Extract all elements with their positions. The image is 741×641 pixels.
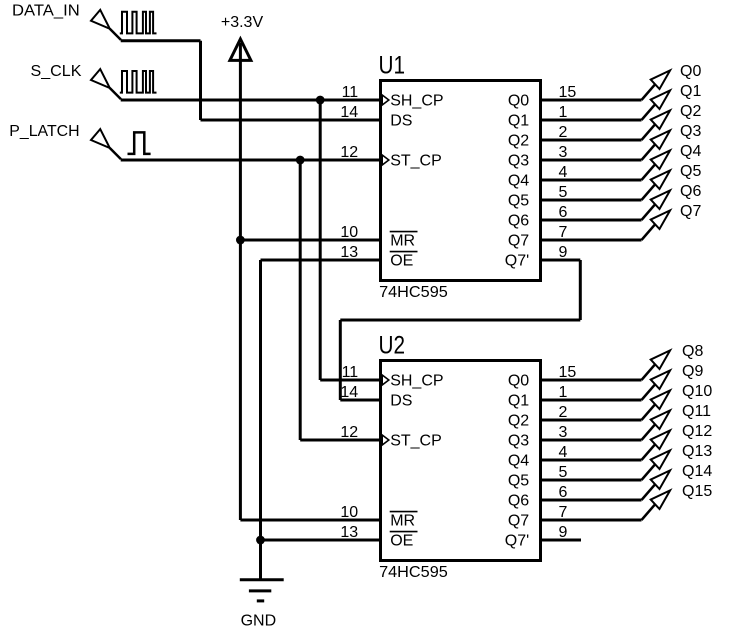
svg-text:14: 14 — [340, 104, 358, 121]
svg-text:U2: U2 — [379, 332, 406, 360]
output port Q5 — [651, 170, 670, 189]
wire output Q3 — [540, 159, 642, 162]
wire output Q2 — [540, 139, 642, 142]
svg-text:OE: OE — [390, 533, 413, 550]
svg-text:Q7': Q7' — [505, 253, 529, 270]
wire DATA_IN horizontal — [121, 39, 201, 42]
svg-text:Q4: Q4 — [680, 143, 701, 160]
clock pin arrow SH_CP of U1 — [382, 95, 389, 105]
wire cascade vertical right — [579, 260, 582, 320]
wire U1 Q7' pin 9 — [540, 259, 580, 262]
svg-text:Q7: Q7 — [680, 203, 701, 220]
clock pin arrow ST_CP of U1 — [382, 155, 389, 165]
wire +3.3V vertical — [239, 43, 242, 520]
svg-text:Q10: Q10 — [682, 383, 712, 400]
output port Q12 — [651, 430, 670, 449]
svg-text:Q3: Q3 — [680, 123, 701, 140]
svg-text:14: 14 — [340, 384, 358, 401]
svg-text:12: 12 — [340, 144, 358, 161]
wire S_CLK vertical to U2 — [319, 100, 322, 380]
wire output Q5 — [540, 199, 642, 202]
wire DATA_IN to U1 DS pin 14 — [201, 119, 383, 122]
svg-text:Q1: Q1 — [680, 83, 701, 100]
output port Q14 — [651, 470, 670, 489]
wire S_CLK to U1 SH_CP pin 11 — [121, 99, 382, 102]
svg-text:GND: GND — [241, 613, 277, 630]
svg-text:1: 1 — [559, 104, 568, 121]
wire cascade to U2 DS pin 14 — [340, 399, 382, 402]
waveform glyph DATA_IN — [120, 12, 157, 34]
svg-text:9: 9 — [559, 244, 568, 261]
svg-text:Q7: Q7 — [508, 513, 529, 530]
svg-text:Q1: Q1 — [508, 113, 529, 130]
wire output Q7 — [540, 239, 642, 242]
svg-text:11: 11 — [342, 84, 359, 101]
output port Q3 — [651, 130, 670, 149]
svg-text:MR: MR — [390, 513, 415, 530]
svg-text:Q12: Q12 — [682, 423, 712, 440]
svg-text:10: 10 — [340, 224, 358, 241]
wire output Q6 — [540, 219, 642, 222]
svg-text:Q6: Q6 — [508, 213, 529, 230]
wire +3.3V to U1 MR pin 10 — [240, 239, 382, 242]
svg-text:Q5: Q5 — [508, 473, 529, 490]
svg-text:ST_CP: ST_CP — [390, 433, 442, 450]
svg-text:Q11: Q11 — [682, 403, 711, 420]
wire +3.3V to U2 MR pin 10 — [240, 519, 382, 522]
svg-text:Q15: Q15 — [682, 483, 712, 500]
wire DATA_IN vertical — [199, 41, 202, 120]
svg-text:3: 3 — [559, 144, 568, 161]
svg-text:Q3: Q3 — [508, 153, 529, 170]
svg-text:13: 13 — [340, 524, 358, 541]
wire output Q10 — [540, 419, 642, 422]
wire output Q9 — [540, 399, 642, 402]
svg-text:15: 15 — [559, 364, 577, 381]
overline MR of U1 — [390, 231, 418, 233]
overline OE of U2 — [390, 531, 418, 533]
output port Q6 — [651, 190, 670, 209]
wire output Q12 — [540, 459, 642, 462]
output port Q15 — [651, 490, 670, 509]
svg-text:Q6: Q6 — [680, 183, 701, 200]
wire output Q15 — [540, 519, 642, 522]
svg-text:3: 3 — [559, 424, 568, 441]
output port Q10 — [651, 390, 670, 409]
power symbol +3.3V arrow — [230, 39, 251, 60]
ground symbol — [240, 578, 284, 581]
svg-text:15: 15 — [559, 84, 577, 101]
wire U2 Q7' pin 9 stub — [540, 539, 581, 542]
svg-text:Q4: Q4 — [508, 453, 529, 470]
wire OE vertical to GND — [259, 260, 262, 580]
clock pin arrow ST_CP of U2 — [382, 435, 389, 445]
input port P_LATCH — [91, 129, 110, 148]
output port Q1 — [651, 90, 670, 109]
junction OE GND — [256, 536, 265, 545]
svg-text:7: 7 — [559, 504, 568, 521]
svg-text:Q9: Q9 — [682, 363, 703, 380]
output port Q11 — [651, 410, 670, 429]
svg-text:P_LATCH: P_LATCH — [9, 123, 79, 140]
IC U1 74HC595 shift register — [381, 81, 541, 281]
svg-text:DATA_IN: DATA_IN — [12, 3, 80, 20]
wire output Q4 — [540, 179, 642, 182]
input port S_CLK — [91, 69, 110, 88]
junction +3.3V MR — [236, 236, 245, 245]
svg-text:Q3: Q3 — [508, 433, 529, 450]
svg-text:13: 13 — [340, 244, 358, 261]
wire cascade horizontal — [340, 319, 580, 322]
svg-text:SH_CP: SH_CP — [390, 93, 443, 110]
wire cascade vertical left — [339, 320, 342, 400]
wire output Q13 — [540, 479, 642, 482]
overline MR of U2 — [390, 511, 418, 513]
svg-text:Q0: Q0 — [680, 63, 701, 80]
svg-text:DS: DS — [390, 393, 412, 410]
junction S_CLK — [316, 96, 325, 105]
wire P_LATCH vertical to U2 — [299, 160, 302, 440]
svg-text:Q14: Q14 — [682, 463, 712, 480]
svg-text:7: 7 — [559, 224, 568, 241]
wire S_CLK to U2 SH_CP pin 11 — [320, 379, 382, 382]
svg-text:+3.3V: +3.3V — [221, 14, 264, 31]
svg-text:MR: MR — [390, 233, 415, 250]
svg-text:Q0: Q0 — [508, 93, 529, 110]
output port Q8 — [651, 350, 670, 369]
svg-text:Q0: Q0 — [508, 373, 529, 390]
wire output Q1 — [540, 119, 642, 122]
svg-text:6: 6 — [559, 204, 568, 221]
output port Q9 — [651, 370, 670, 389]
wire GND to U1 OE pin 13 — [261, 259, 383, 262]
svg-text:11: 11 — [342, 364, 359, 381]
svg-text:SH_CP: SH_CP — [390, 373, 443, 390]
output port Q7 — [651, 210, 670, 229]
svg-text:Q7': Q7' — [505, 533, 529, 550]
wire output Q8 — [540, 379, 642, 382]
svg-text:4: 4 — [559, 444, 568, 461]
svg-text:5: 5 — [559, 184, 568, 201]
IC U2 74HC595 shift register — [381, 361, 541, 561]
svg-text:74HC595: 74HC595 — [379, 284, 448, 301]
svg-text:Q7: Q7 — [508, 233, 529, 250]
svg-text:Q1: Q1 — [508, 393, 529, 410]
pulse glyph P_LATCH — [128, 132, 151, 154]
waveform glyph S_CLK — [120, 71, 157, 93]
wire P_LATCH to U2 ST_CP pin 12 — [300, 439, 382, 442]
svg-text:Q5: Q5 — [508, 193, 529, 210]
svg-text:4: 4 — [559, 164, 568, 181]
wire output Q0 — [540, 99, 642, 102]
svg-text:ST_CP: ST_CP — [390, 153, 442, 170]
svg-text:2: 2 — [559, 404, 568, 421]
overline OE of U1 — [390, 251, 418, 253]
svg-text:Q13: Q13 — [682, 443, 712, 460]
svg-text:U1: U1 — [379, 52, 406, 80]
svg-text:Q4: Q4 — [508, 173, 529, 190]
wire output Q11 — [540, 439, 642, 442]
svg-text:Q2: Q2 — [508, 133, 529, 150]
svg-text:9: 9 — [559, 524, 568, 541]
svg-text:Q5: Q5 — [680, 163, 701, 180]
svg-text:OE: OE — [390, 253, 413, 270]
svg-text:Q8: Q8 — [682, 343, 703, 360]
svg-text:74HC595: 74HC595 — [379, 564, 448, 581]
svg-text:Q2: Q2 — [680, 103, 701, 120]
junction P_LATCH — [296, 156, 305, 165]
svg-text:S_CLK: S_CLK — [31, 63, 82, 80]
svg-text:6: 6 — [559, 484, 568, 501]
svg-text:1: 1 — [559, 384, 568, 401]
svg-text:10: 10 — [340, 504, 358, 521]
clock pin arrow SH_CP of U2 — [382, 375, 389, 385]
output port Q4 — [651, 150, 670, 169]
svg-text:12: 12 — [340, 424, 358, 441]
svg-text:Q6: Q6 — [508, 493, 529, 510]
svg-text:5: 5 — [559, 464, 568, 481]
wire output Q14 — [540, 499, 642, 502]
output port Q2 — [651, 110, 670, 129]
wire P_LATCH to U1 ST_CP pin 12 — [121, 159, 382, 162]
svg-text:DS: DS — [390, 113, 412, 130]
output port Q13 — [651, 450, 670, 469]
input port DATA_IN — [91, 10, 110, 29]
wire GND to U2 OE pin 13 — [261, 539, 383, 542]
svg-text:Q2: Q2 — [508, 413, 529, 430]
output port Q0 — [651, 70, 670, 89]
svg-text:2: 2 — [559, 124, 568, 141]
